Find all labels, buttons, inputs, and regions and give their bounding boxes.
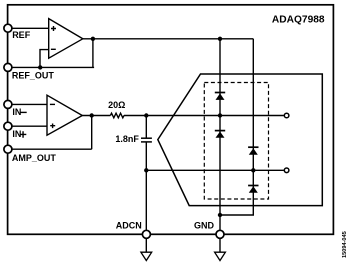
svg-text:AMP_OUT: AMP_OUT — [12, 153, 57, 163]
svg-text:15094-045: 15094-045 — [342, 231, 348, 258]
svg-text:1.8nF: 1.8nF — [115, 134, 139, 144]
svg-text:REF: REF — [12, 30, 31, 40]
svg-text:GND: GND — [194, 220, 215, 230]
svg-text:ADCN: ADCN — [116, 220, 142, 230]
svg-text:ADAQ7988: ADAQ7988 — [272, 15, 325, 26]
svg-text:REF_OUT: REF_OUT — [12, 71, 55, 81]
svg-text:20Ω: 20Ω — [108, 100, 125, 110]
